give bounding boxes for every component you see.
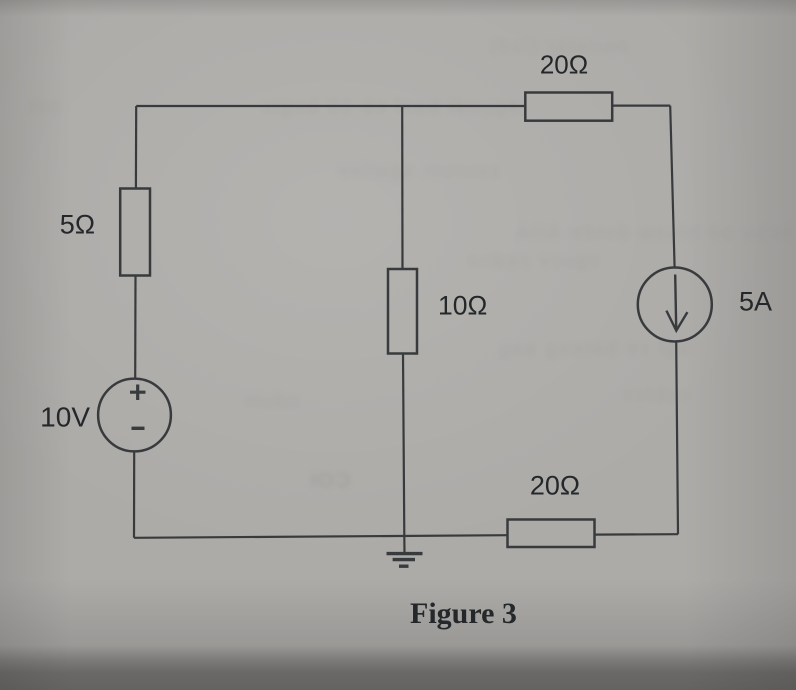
resistor R1 5ohm box [120,189,150,276]
wire middle branch upper segment [401,106,403,269]
ground bar 1 [387,552,423,555]
svg-text:5A: 5A [739,287,772,317]
resistor R4 20ohm bottom box [508,520,595,548]
arrow shaft inside I1 [675,275,676,330]
wire left branch middle segment [134,276,137,379]
ground stem [403,537,405,553]
current source I1 circle [638,268,712,342]
svg-text:5Ω: 5Ω [60,210,95,240]
wire top-right horizontal [612,104,670,106]
wire bottom-left horizontal [134,535,508,538]
faint bleed-through text smudges [498,36,628,59]
wire right branch upper segment [670,106,674,268]
voltage source V1 circle [98,379,171,452]
svg-text:20Ω: 20Ω [530,471,580,501]
wire bottom-right horizontal [595,533,679,536]
svg-text:Figure 3: Figure 3 [410,597,517,630]
wire top-left horizontal (node top between left branch and 20ohm) [136,105,525,107]
wire right branch lower segment [676,342,678,535]
svg-text:10Ω: 10Ω [438,291,487,321]
wire left branch upper segment [135,106,138,189]
plus sign inside V1 [130,385,146,401]
svg-text:10V: 10V [40,402,90,433]
resistor R3 10ohm box [388,269,417,354]
ground bar 3 [399,565,409,568]
wire middle branch lower segment [403,354,404,537]
ground bar 2 [393,558,415,561]
resistor R2 20ohm top box [525,93,612,121]
wire left branch lower segment [133,452,135,538]
minus sign inside V1 [132,427,145,430]
arrow head inside I1 [666,311,687,331]
svg-text:20Ω: 20Ω [540,50,588,80]
